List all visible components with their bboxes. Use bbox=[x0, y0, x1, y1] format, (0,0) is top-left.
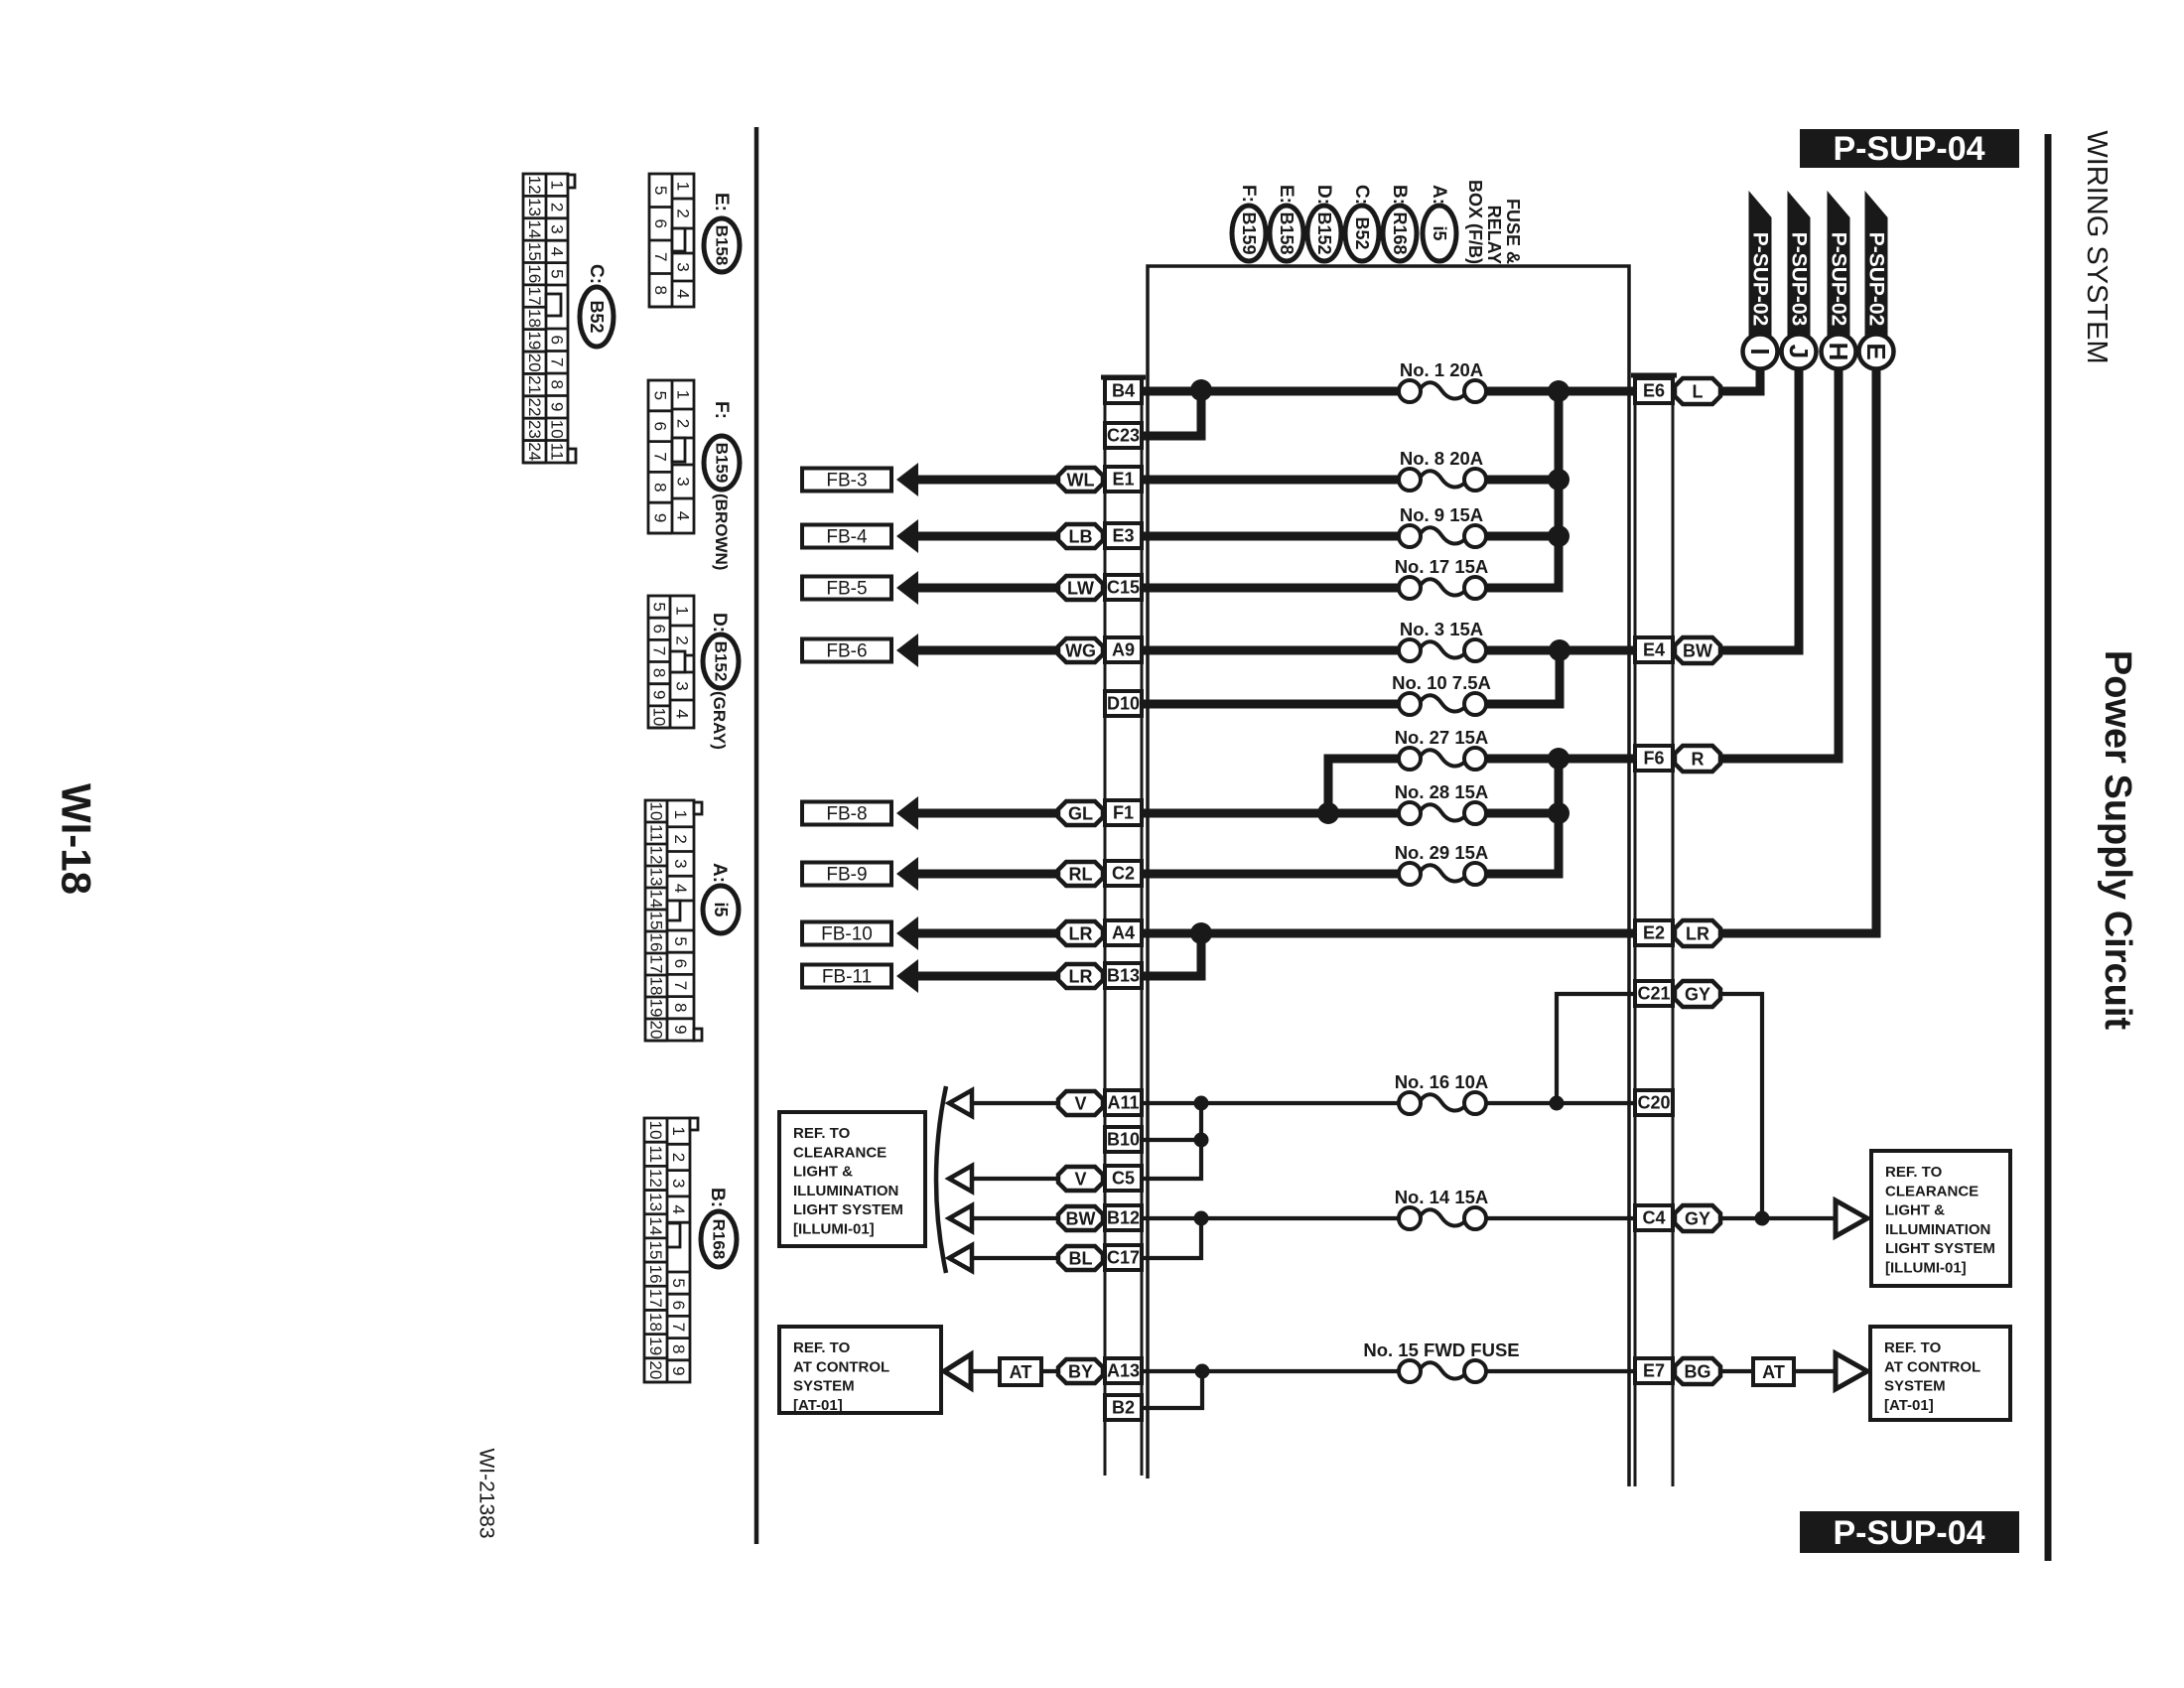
svg-text:6: 6 bbox=[651, 421, 670, 430]
svg-text:11: 11 bbox=[647, 824, 666, 842]
svg-text:4: 4 bbox=[669, 1204, 688, 1213]
junction fuse No.8 to bus bbox=[1548, 469, 1570, 491]
svg-text:No. 1 20A: No. 1 20A bbox=[1400, 359, 1483, 380]
svg-text:12: 12 bbox=[647, 846, 666, 865]
svg-text:A13: A13 bbox=[1107, 1361, 1140, 1381]
svg-text:F6: F6 bbox=[1643, 749, 1664, 769]
svg-text:1: 1 bbox=[548, 180, 567, 189]
reference box AT control (right) bbox=[1870, 1327, 2010, 1420]
wire colour tag BY y=1381 bbox=[1058, 1359, 1103, 1383]
wire colour tag L y=394 bbox=[1675, 378, 1720, 404]
svg-text:C21: C21 bbox=[1637, 984, 1670, 1004]
svg-text:6: 6 bbox=[650, 625, 669, 633]
svg-text:No. 10 7.5A: No. 10 7.5A bbox=[1392, 672, 1491, 693]
vertical joining fuse No.10 to E4 row bbox=[1486, 650, 1560, 704]
svg-text:6: 6 bbox=[669, 1301, 688, 1310]
destination box FB-6 bbox=[802, 639, 891, 662]
pin box F1 bbox=[1105, 800, 1142, 825]
connector E: B158 pin grid bbox=[649, 174, 694, 307]
svg-text:2: 2 bbox=[674, 419, 693, 428]
pin box D10 bbox=[1105, 691, 1142, 716]
svg-text:19: 19 bbox=[646, 1336, 665, 1355]
connector D: B152 pin grid bbox=[648, 596, 694, 728]
wire fuse output row E1 bbox=[1486, 476, 1559, 485]
vertical A11/B10/C5 branch bbox=[1142, 1103, 1201, 1179]
svg-text:F1: F1 bbox=[1113, 803, 1134, 823]
svg-text:C:: C: bbox=[1351, 185, 1372, 205]
wire colour tag LW y=592 bbox=[1058, 576, 1103, 600]
connector A: i5 pin grid bbox=[645, 800, 702, 1041]
junction A4/B13 bbox=[1190, 922, 1212, 944]
svg-text:3: 3 bbox=[674, 477, 693, 486]
svg-text:B:: B: bbox=[707, 1188, 728, 1207]
svg-text:No. 16 10A: No. 16 10A bbox=[1395, 1071, 1489, 1092]
svg-text:B152: B152 bbox=[712, 641, 731, 682]
svg-text:C4: C4 bbox=[1642, 1208, 1665, 1228]
wire fuse No.27 to F6 bbox=[1486, 755, 1635, 764]
svg-text:4: 4 bbox=[673, 709, 692, 718]
svg-text:5: 5 bbox=[548, 269, 567, 278]
wire tag L to flag I riser bbox=[1720, 367, 1760, 391]
junction No.3/No.10 bbox=[1549, 639, 1570, 661]
svg-text:14: 14 bbox=[525, 219, 544, 238]
wire arrow to tag (FB-6) bbox=[917, 646, 1058, 655]
vertical bus fuses 27,28,29 bbox=[1486, 759, 1559, 874]
pin box C2 bbox=[1105, 861, 1142, 886]
wire A13 to fuse No.15 bbox=[1142, 1369, 1399, 1373]
junction fuse No.9 to bus bbox=[1548, 525, 1570, 547]
elbow A4 to B13 bbox=[1142, 929, 1201, 976]
pin box A4 bbox=[1105, 920, 1142, 945]
svg-text:B158: B158 bbox=[713, 225, 732, 266]
svg-text:2: 2 bbox=[669, 1153, 688, 1162]
svg-text:No. 8 20A: No. 8 20A bbox=[1400, 448, 1483, 469]
svg-text:C:: C: bbox=[586, 264, 607, 284]
pin box C4 bbox=[1635, 1205, 1673, 1230]
pin box A13 bbox=[1105, 1358, 1142, 1383]
svg-text:L: L bbox=[1693, 382, 1704, 402]
svg-text:8: 8 bbox=[650, 668, 669, 677]
wire B10 stub bbox=[1142, 1138, 1201, 1142]
svg-text:8: 8 bbox=[651, 483, 670, 492]
svg-text:BY: BY bbox=[1068, 1362, 1093, 1382]
svg-text:4: 4 bbox=[674, 289, 693, 298]
wire colour tag BW y=655 bbox=[1675, 637, 1720, 663]
wire fuse output row E3 bbox=[1486, 532, 1559, 541]
wire colour tag GY y=1001 bbox=[1675, 981, 1720, 1007]
svg-text:B52: B52 bbox=[1352, 216, 1372, 249]
svg-text:8: 8 bbox=[651, 286, 670, 295]
svg-text:3: 3 bbox=[669, 1179, 688, 1188]
AT tag box left bbox=[1000, 1358, 1041, 1385]
F/B connector ref label D: B152 bbox=[1307, 185, 1341, 261]
svg-text:B10: B10 bbox=[1107, 1130, 1140, 1150]
wire colour tag WG y=655 bbox=[1058, 638, 1103, 662]
svg-text:R: R bbox=[1692, 750, 1705, 770]
svg-text:SYSTEM: SYSTEM bbox=[793, 1378, 855, 1395]
svg-text:2: 2 bbox=[674, 209, 693, 217]
wire colour tag R y=764 bbox=[1675, 746, 1720, 772]
svg-text:9: 9 bbox=[650, 690, 669, 699]
arrow to FB-9 bbox=[896, 857, 918, 891]
svg-text:BW: BW bbox=[1683, 641, 1712, 661]
fuse No. 8 20A bbox=[1399, 448, 1486, 491]
svg-text:No. 17 15A: No. 17 15A bbox=[1395, 556, 1489, 577]
connector F: B159 pin grid bbox=[648, 380, 694, 533]
svg-text:16: 16 bbox=[525, 264, 544, 283]
svg-text:15: 15 bbox=[646, 1241, 665, 1260]
svg-text:14: 14 bbox=[647, 890, 666, 909]
wire tag BG to AT box bbox=[1720, 1369, 1753, 1373]
pin box A11 bbox=[1105, 1090, 1142, 1115]
svg-text:LB: LB bbox=[1069, 527, 1093, 547]
arrow to FB-3 bbox=[896, 463, 918, 496]
pin box C23 bbox=[1105, 423, 1142, 448]
svg-text:A9: A9 bbox=[1112, 640, 1135, 660]
svg-text:WI-18: WI-18 bbox=[54, 783, 100, 895]
pin box A9 bbox=[1105, 637, 1142, 662]
wire tag GY (C4) to arrow bbox=[1718, 1216, 1836, 1220]
svg-text:8: 8 bbox=[669, 1344, 688, 1353]
svg-text:10: 10 bbox=[650, 707, 669, 726]
wire B4 to fuse No.1 bbox=[1142, 387, 1399, 396]
svg-text:P-SUP-04: P-SUP-04 bbox=[1833, 130, 1984, 168]
svg-text:1: 1 bbox=[669, 1126, 688, 1135]
pin box C21 bbox=[1635, 981, 1673, 1006]
connector label F: B159 (BROWN) bbox=[704, 401, 740, 570]
svg-text:No. 27 15A: No. 27 15A bbox=[1395, 727, 1489, 748]
wire arrow to tag (FB-11) bbox=[917, 972, 1058, 981]
svg-text:15: 15 bbox=[647, 912, 666, 930]
wire tag GY (C21) to loop bbox=[1718, 994, 1762, 1218]
pin box E4 bbox=[1635, 637, 1673, 662]
svg-text:H: H bbox=[1824, 343, 1853, 361]
svg-text:4: 4 bbox=[674, 511, 693, 520]
svg-text:B13: B13 bbox=[1107, 966, 1140, 986]
svg-text:D:: D: bbox=[709, 613, 730, 633]
svg-text:FB-4: FB-4 bbox=[826, 527, 868, 548]
wire D10 to fuse No.10 bbox=[1142, 700, 1399, 709]
svg-text:WG: WG bbox=[1065, 641, 1096, 661]
svg-text:FB-3: FB-3 bbox=[826, 471, 867, 492]
svg-text:P-SUP-04: P-SUP-04 bbox=[1833, 1514, 1984, 1552]
svg-text:I: I bbox=[1745, 348, 1775, 354]
svg-text:R168: R168 bbox=[710, 1219, 729, 1260]
svg-text:C23: C23 bbox=[1107, 426, 1140, 446]
wire arrow to tag (FB-8) bbox=[917, 809, 1058, 818]
svg-text:20: 20 bbox=[647, 1021, 666, 1040]
F/B title FUSE & RELAY BOX (F/B) bbox=[1465, 180, 1523, 264]
destination box FB-9 bbox=[802, 863, 891, 886]
svg-text:GY: GY bbox=[1685, 985, 1710, 1005]
svg-text:LR: LR bbox=[1686, 924, 1709, 944]
svg-text:C2: C2 bbox=[1112, 864, 1135, 884]
wire E1 to fuse bbox=[1142, 476, 1399, 485]
svg-text:E:: E: bbox=[711, 193, 732, 211]
junction F1 branch to No.27 bbox=[1317, 802, 1339, 824]
junction B4/C23 bbox=[1190, 379, 1212, 401]
fuse No. 16 10A bbox=[1395, 1071, 1489, 1114]
svg-text:1: 1 bbox=[671, 810, 690, 819]
svg-text:V: V bbox=[1074, 1170, 1086, 1190]
svg-text:F:: F: bbox=[1238, 185, 1259, 203]
svg-text:3: 3 bbox=[548, 224, 567, 233]
elbow F1 branch to fuse No.27 input bbox=[1328, 759, 1399, 817]
svg-text:8: 8 bbox=[671, 1003, 690, 1012]
svg-text:RL: RL bbox=[1069, 865, 1093, 885]
pin box C15 bbox=[1105, 575, 1142, 600]
right bus ladder rails bbox=[1631, 375, 1677, 1486]
svg-text:B158: B158 bbox=[1277, 211, 1297, 254]
svg-text:P-SUP-02: P-SUP-02 bbox=[1865, 232, 1888, 327]
svg-text:LIGHT &: LIGHT & bbox=[1885, 1202, 1945, 1219]
svg-text:12: 12 bbox=[646, 1169, 665, 1188]
svg-text:ILLUMINATION: ILLUMINATION bbox=[793, 1183, 898, 1199]
svg-text:10: 10 bbox=[646, 1121, 665, 1140]
destination box FB-3 bbox=[802, 469, 891, 492]
svg-text:i5: i5 bbox=[711, 902, 731, 916]
wire colour tag LB y=540 bbox=[1058, 524, 1103, 548]
svg-text:18: 18 bbox=[525, 309, 544, 328]
junction C20 row bbox=[1550, 1096, 1565, 1111]
svg-text:4: 4 bbox=[671, 884, 690, 893]
svg-text:CLEARANCE: CLEARANCE bbox=[793, 1144, 887, 1161]
svg-text:12: 12 bbox=[525, 176, 544, 195]
svg-text:19: 19 bbox=[647, 999, 666, 1018]
svg-text:Power Supply Circuit: Power Supply Circuit bbox=[2097, 650, 2138, 1031]
pin box C20 bbox=[1635, 1090, 1673, 1115]
svg-text:13: 13 bbox=[525, 198, 544, 216]
wire colour tag LR y=983 bbox=[1058, 964, 1103, 988]
wire fuse No.1 to E6 and tag L bbox=[1486, 387, 1635, 396]
open arrow (illumination) y=1227 bbox=[949, 1205, 972, 1231]
wire illumination arrow stub y=1111 bbox=[970, 1101, 1058, 1105]
svg-text:CLEARANCE: CLEARANCE bbox=[1885, 1183, 1979, 1199]
svg-text:P-SUP-03: P-SUP-03 bbox=[1788, 232, 1811, 327]
reference box clearance light (right) bbox=[1871, 1151, 2010, 1286]
wire colour tag GL y=819 bbox=[1058, 801, 1103, 825]
svg-text:(BROWN): (BROWN) bbox=[712, 493, 731, 570]
svg-text:8: 8 bbox=[548, 380, 567, 389]
svg-text:LIGHT SYSTEM: LIGHT SYSTEM bbox=[793, 1201, 903, 1218]
svg-text:7: 7 bbox=[669, 1323, 688, 1332]
junction B10 bbox=[1194, 1133, 1209, 1148]
page reference flag P-SUP-02 circle E bbox=[1859, 191, 1894, 369]
svg-text:14: 14 bbox=[646, 1216, 665, 1235]
wire left arrow to AT box (A13 row) bbox=[967, 1369, 1000, 1373]
svg-text:7: 7 bbox=[650, 646, 669, 655]
svg-text:C17: C17 bbox=[1107, 1248, 1140, 1268]
svg-text:E7: E7 bbox=[1643, 1361, 1665, 1381]
svg-text:A4: A4 bbox=[1112, 923, 1135, 943]
wire fuse No.16 to C20 bbox=[1486, 1101, 1635, 1105]
F/B connector ref label E: B158 bbox=[1270, 185, 1303, 261]
pin box B4 bbox=[1105, 378, 1142, 403]
svg-text:D:: D: bbox=[1313, 185, 1334, 205]
fuse No. 1 20A bbox=[1399, 359, 1486, 402]
svg-text:LW: LW bbox=[1067, 579, 1094, 599]
svg-text:18: 18 bbox=[647, 977, 666, 996]
wire colour tag WL y=483 bbox=[1058, 468, 1103, 492]
svg-text:P-SUP-02: P-SUP-02 bbox=[1749, 232, 1772, 327]
wire colour tag LR y=940 bbox=[1675, 920, 1720, 946]
svg-text:LIGHT &: LIGHT & bbox=[793, 1164, 853, 1181]
svg-text:E4: E4 bbox=[1643, 640, 1665, 660]
svg-text:E: E bbox=[1861, 343, 1891, 359]
svg-text:FB-8: FB-8 bbox=[826, 804, 867, 825]
svg-text:LR: LR bbox=[1069, 924, 1093, 944]
svg-text:17: 17 bbox=[647, 955, 666, 974]
wire arrow to tag (FB-5) bbox=[917, 584, 1058, 593]
svg-text:19: 19 bbox=[525, 331, 544, 350]
svg-text:AT CONTROL: AT CONTROL bbox=[793, 1358, 889, 1375]
svg-text:LIGHT SYSTEM: LIGHT SYSTEM bbox=[1885, 1240, 1995, 1257]
page reference flag P-SUP-02 circle I bbox=[1743, 191, 1778, 369]
wire A11 to fuse No.16 bbox=[1142, 1101, 1399, 1105]
F/B connector ref label A: i5 bbox=[1423, 185, 1456, 261]
wire colour tag GY y=1227 bbox=[1675, 1205, 1720, 1231]
svg-text:REF. TO: REF. TO bbox=[1884, 1339, 1942, 1356]
junction A13 branch bbox=[1195, 1364, 1210, 1379]
wire colour tag RL y=880 bbox=[1058, 862, 1103, 886]
svg-text:ILLUMINATION: ILLUMINATION bbox=[1885, 1221, 1990, 1238]
reference box AT control (left) bbox=[779, 1327, 941, 1414]
svg-text:E:: E: bbox=[1276, 185, 1297, 204]
svg-text:FB-9: FB-9 bbox=[826, 865, 867, 886]
svg-text:A:: A: bbox=[1429, 185, 1449, 205]
top banner P-SUP-04 bbox=[1800, 129, 2019, 168]
svg-text:E3: E3 bbox=[1112, 526, 1134, 546]
wire arrow to tag (FB-9) bbox=[917, 870, 1058, 879]
fuse No. 28 15A bbox=[1395, 781, 1489, 824]
svg-text:11: 11 bbox=[646, 1145, 665, 1163]
wire E3 to fuse bbox=[1142, 532, 1399, 541]
svg-text:1: 1 bbox=[673, 606, 692, 615]
svg-text:REF. TO: REF. TO bbox=[1885, 1164, 1943, 1181]
svg-text:18: 18 bbox=[646, 1313, 665, 1332]
connector label B: R168 bbox=[701, 1188, 737, 1267]
svg-text:WL: WL bbox=[1067, 471, 1095, 491]
pin box B12 bbox=[1105, 1205, 1142, 1230]
destination box FB-11 bbox=[802, 965, 891, 988]
svg-text:SYSTEM: SYSTEM bbox=[1884, 1378, 1946, 1395]
svg-text:J: J bbox=[1784, 345, 1814, 358]
svg-text:5: 5 bbox=[671, 936, 690, 945]
svg-text:B12: B12 bbox=[1107, 1208, 1140, 1228]
svg-text:BG: BG bbox=[1685, 1362, 1711, 1382]
svg-text:9: 9 bbox=[651, 513, 670, 522]
wire colour tag BW y=1227 bbox=[1058, 1206, 1103, 1230]
wire illumination arrow stub y=1187 bbox=[970, 1177, 1058, 1181]
open arrow to AT control (right) bbox=[1836, 1353, 1867, 1389]
svg-text:B159: B159 bbox=[713, 443, 732, 484]
open arrow (illumination) y=1267 bbox=[949, 1245, 972, 1271]
fuse No. 14 15A bbox=[1395, 1187, 1489, 1229]
wire fuse No.15 to E7 bbox=[1486, 1369, 1635, 1373]
svg-text:FB-11: FB-11 bbox=[822, 967, 872, 988]
destination box FB-8 bbox=[802, 802, 891, 825]
open arrow (illumination) y=1187 bbox=[949, 1166, 972, 1192]
pin box B13 bbox=[1105, 963, 1142, 988]
svg-text:9: 9 bbox=[669, 1366, 688, 1375]
svg-text:R168: R168 bbox=[1390, 211, 1410, 254]
wire illumination arrow stub y=1227 bbox=[970, 1216, 1058, 1220]
svg-text:7: 7 bbox=[651, 252, 670, 261]
svg-text:A:: A: bbox=[709, 863, 730, 883]
svg-text:20: 20 bbox=[525, 353, 544, 372]
svg-text:4: 4 bbox=[548, 247, 567, 256]
svg-text:5: 5 bbox=[650, 602, 669, 611]
pin box B10 bbox=[1105, 1127, 1142, 1152]
fuse No. 17 15A bbox=[1395, 556, 1489, 599]
junction B12 branch bbox=[1194, 1211, 1209, 1226]
pin box E1 bbox=[1105, 467, 1142, 492]
svg-text:No. 9 15A: No. 9 15A bbox=[1400, 504, 1483, 525]
svg-text:16: 16 bbox=[647, 933, 666, 952]
svg-text:No. 29 15A: No. 29 15A bbox=[1395, 842, 1489, 863]
svg-text:10: 10 bbox=[647, 802, 666, 821]
svg-text:C15: C15 bbox=[1107, 578, 1140, 598]
pin box E2 bbox=[1635, 920, 1673, 945]
arrow to FB-11 bbox=[896, 959, 918, 993]
svg-text:REF. TO: REF. TO bbox=[793, 1125, 851, 1142]
svg-text:E1: E1 bbox=[1112, 470, 1134, 490]
svg-text:1: 1 bbox=[674, 182, 693, 191]
page reference flag P-SUP-03 circle J bbox=[1782, 191, 1817, 369]
page reference flag P-SUP-02 circle H bbox=[1822, 191, 1856, 369]
wire illumination arrow stub y=1267 bbox=[970, 1256, 1058, 1260]
svg-text:13: 13 bbox=[646, 1193, 665, 1211]
left page border line bbox=[754, 127, 759, 1544]
wire tag R to flag H riser bbox=[1720, 367, 1839, 759]
svg-text:FUSE &: FUSE & bbox=[1503, 199, 1523, 264]
wire arrow to tag (FB-3) bbox=[917, 476, 1058, 485]
wire fuse No.14 to C4 bbox=[1486, 1216, 1635, 1220]
svg-text:6: 6 bbox=[651, 219, 670, 228]
connector label A: i5 bbox=[703, 863, 739, 933]
wire A4 to E2 bbox=[1142, 929, 1635, 938]
svg-text:[AT-01]: [AT-01] bbox=[793, 1397, 843, 1414]
connector B: R168 pin grid bbox=[644, 1118, 698, 1382]
pin box F6 bbox=[1635, 746, 1673, 771]
svg-text:3: 3 bbox=[673, 681, 692, 690]
svg-text:24: 24 bbox=[525, 442, 544, 461]
svg-text:E6: E6 bbox=[1643, 381, 1665, 401]
svg-text:GY: GY bbox=[1685, 1209, 1710, 1229]
wire F1 to fuse No.28 bbox=[1142, 809, 1399, 818]
svg-text:1: 1 bbox=[674, 390, 693, 399]
svg-text:FB-5: FB-5 bbox=[826, 579, 867, 600]
svg-text:5: 5 bbox=[669, 1278, 688, 1287]
svg-text:C5: C5 bbox=[1112, 1169, 1135, 1189]
fuse No. 15 FWD FUSE bbox=[1363, 1339, 1519, 1382]
svg-text:2: 2 bbox=[671, 834, 690, 843]
AT tag box right bbox=[1753, 1358, 1794, 1385]
pin box C5 bbox=[1105, 1166, 1142, 1191]
svg-text:7: 7 bbox=[651, 452, 670, 461]
svg-text:REF. TO: REF. TO bbox=[793, 1339, 851, 1356]
junction No.1 output bus bbox=[1548, 380, 1570, 402]
svg-text:16: 16 bbox=[646, 1265, 665, 1284]
svg-text:17: 17 bbox=[646, 1289, 665, 1308]
vertical bus joining fuses 8,9,17 to E6 row bbox=[1486, 391, 1559, 588]
svg-text:5: 5 bbox=[651, 391, 670, 400]
wire A9 to fuse No.3 bbox=[1142, 646, 1399, 655]
reference box clearance light (left) bbox=[779, 1112, 925, 1246]
destination box FB-5 bbox=[802, 577, 891, 600]
svg-text:AT: AT bbox=[1010, 1362, 1032, 1382]
svg-text:A11: A11 bbox=[1107, 1093, 1139, 1113]
